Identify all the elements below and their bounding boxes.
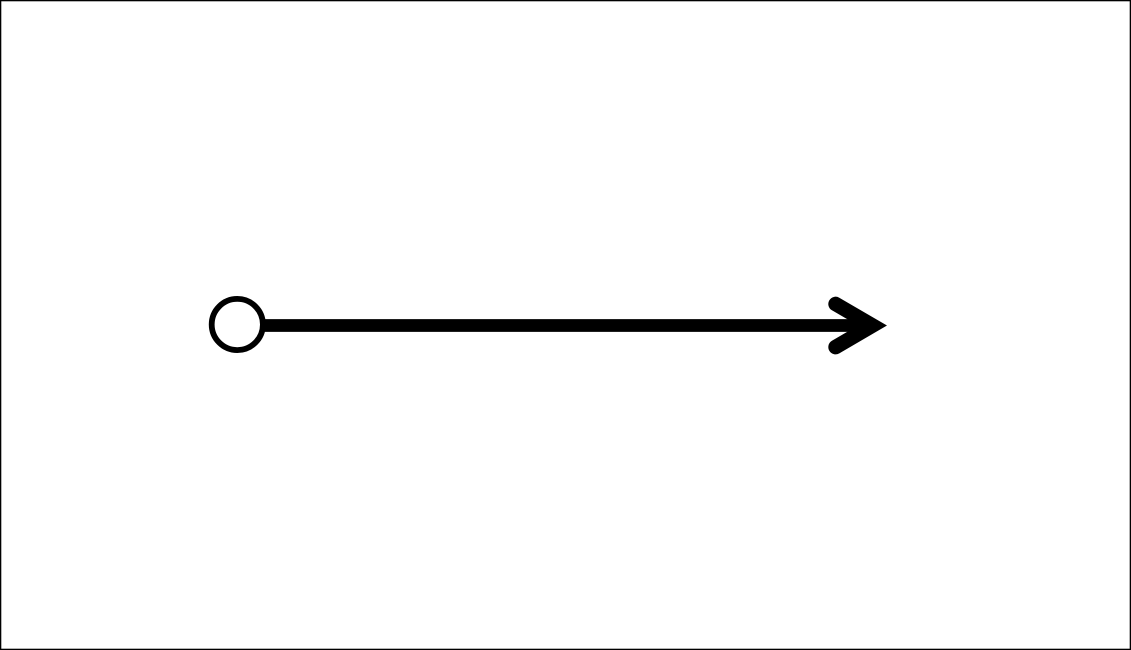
node A (open circle terminal) — [212, 299, 263, 350]
arrowhead — [836, 304, 873, 347]
wire shaft — [262, 319, 866, 332]
